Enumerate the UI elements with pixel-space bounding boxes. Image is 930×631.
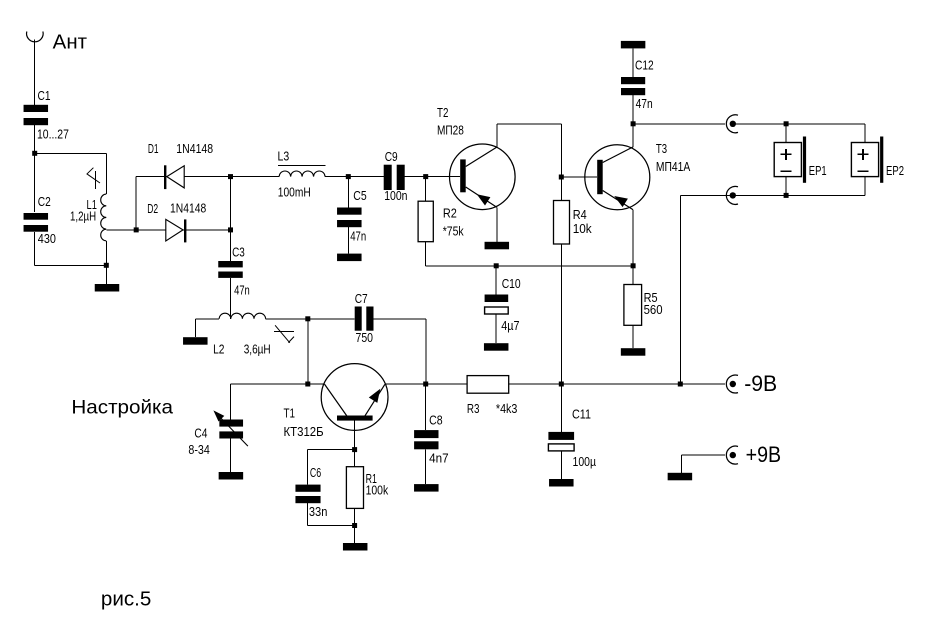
capacitor C3: [218, 245, 250, 297]
wire rail R3 to connector: [509, 383, 725, 385]
node T3 base junction: [559, 175, 564, 180]
wire C6 to bottom: [307, 503, 354, 525]
net +9V label: [746, 442, 782, 467]
svg-text:C6: C6: [310, 466, 321, 480]
trimmer mark L2: [274, 325, 294, 343]
wire C3 to L2 node: [230, 278, 232, 319]
wire C8 top lead: [425, 384, 427, 430]
svg-text:рис.5: рис.5: [101, 589, 151, 611]
ground under R5: [621, 348, 646, 356]
connector output top: [726, 115, 738, 133]
wire phones bottom return: [680, 194, 865, 196]
wire C7 to emitter node: [374, 319, 427, 384]
svg-text:100n: 100n: [384, 189, 407, 203]
svg-text:C4: C4: [194, 426, 207, 440]
wire R5 to ground: [632, 325, 634, 348]
node C10 junction: [494, 263, 499, 268]
ground under L2: [183, 337, 208, 345]
ground above C12: [621, 41, 646, 49]
svg-text:33n: 33n: [309, 505, 328, 519]
wire rail C4 to T1: [231, 383, 324, 385]
svg-text:1,2µН: 1,2µН: [70, 210, 96, 224]
svg-text:C8: C8: [429, 414, 443, 428]
wire L1 top lead: [105, 153, 107, 194]
diode D2: [136, 201, 231, 242]
svg-text:R3: R3: [467, 402, 480, 416]
svg-text:МП28: МП28: [437, 124, 464, 138]
svg-text:430: 430: [38, 232, 56, 246]
wire T2 base: [426, 176, 461, 178]
svg-text:3,6µН: 3,6µН: [244, 343, 271, 357]
svg-text:EP1: EP1: [809, 164, 827, 178]
node D2 left junction: [134, 227, 139, 232]
capacitor C12: [621, 59, 654, 112]
svg-text:T2: T2: [437, 106, 448, 120]
svg-text:C10: C10: [502, 277, 521, 291]
svg-text:Ант: Ант: [53, 32, 87, 54]
ground under C4: [219, 472, 244, 480]
wire R5 top lead: [632, 266, 634, 285]
svg-text:+9В: +9В: [746, 442, 782, 467]
capacitor C7: [355, 292, 374, 345]
svg-text:L3: L3: [278, 150, 290, 164]
node Ант label: [53, 32, 87, 54]
wire T3 emitter lead: [632, 210, 634, 266]
node EP1 top junction: [784, 121, 789, 126]
wire R4 top lead: [560, 177, 562, 201]
wire return riser: [679, 195, 681, 384]
wire C2 bottom lead: [34, 232, 36, 265]
earphone EP1: [774, 137, 826, 183]
wire D2 to C3: [230, 230, 232, 261]
wire tank top: [35, 152, 107, 154]
wire rail T1 to R3: [385, 383, 467, 385]
svg-text:T1: T1: [284, 407, 296, 421]
svg-text:D2: D2: [147, 202, 158, 216]
svg-text:1N4148: 1N4148: [170, 201, 206, 215]
wire C4 top lead: [230, 384, 232, 420]
ground under C5: [337, 254, 362, 262]
svg-text:100mH: 100mH: [278, 186, 311, 200]
node L1 bottom junction: [104, 263, 109, 268]
label Настройка: [71, 396, 173, 418]
wire D1-D2 right riser: [230, 177, 232, 230]
capacitor C6: [295, 466, 327, 519]
wire R2-C10-T3 rail: [426, 265, 633, 267]
wire collector node to output connector: [633, 123, 725, 125]
ground at +9V: [668, 473, 693, 481]
capacitor C5: [337, 189, 367, 244]
capacitor C10: [485, 277, 521, 333]
wire C4 to ground: [230, 439, 232, 473]
wire L1 bottom lead: [105, 241, 107, 265]
earphone EP2: [851, 137, 904, 183]
node T3 collector junction: [631, 121, 636, 126]
connector -9V: [726, 375, 738, 393]
transistor T2: [437, 106, 515, 209]
wire C12 to collector node: [632, 95, 634, 124]
svg-text:4µ7: 4µ7: [501, 319, 519, 333]
capacitor C8: [414, 414, 449, 466]
ground under C8: [414, 484, 439, 492]
node D1 right junction: [228, 174, 233, 179]
wire ground to C12: [632, 48, 634, 77]
wire to ground under L1: [105, 265, 107, 284]
label рис.5: [101, 589, 151, 611]
wire C2 top lead: [34, 153, 36, 212]
wire EP1 bottom lead: [785, 177, 787, 196]
svg-text:4n7: 4n7: [429, 452, 449, 466]
inductor L2: [213, 313, 271, 356]
diode D1: [136, 142, 231, 189]
svg-text:EP2: EP2: [886, 164, 904, 178]
resistor R5: [624, 285, 663, 326]
wire connector to phones top: [736, 123, 866, 125]
ground T2 emitter: [485, 242, 510, 250]
wire tank bottom: [35, 264, 107, 266]
ground under R1: [343, 543, 368, 551]
svg-text:Настройка: Настройка: [71, 396, 173, 418]
svg-text:C3: C3: [232, 245, 245, 259]
wire R1 top lead: [354, 450, 356, 467]
svg-text:D1: D1: [148, 142, 159, 156]
wire +9V to ground: [682, 455, 725, 473]
wire C9 to T2 base node: [405, 176, 426, 178]
svg-text:C11: C11: [572, 408, 591, 422]
ground under L1: [95, 284, 120, 292]
svg-text:-9В: -9В: [744, 371, 777, 396]
inductor L3: [278, 150, 326, 200]
wire T2 emitter lead: [496, 207, 498, 242]
wire C11 to ground: [560, 451, 562, 479]
capacitor C1: [24, 89, 69, 142]
wire EP2 bottom lead: [864, 177, 866, 196]
capacitor C4: [188, 410, 248, 457]
node T1 base junction: [352, 447, 357, 452]
resistor R4: [554, 201, 593, 245]
svg-text:T3: T3: [656, 142, 667, 156]
node T1 emitter junction: [423, 382, 428, 387]
net -9V label: [744, 371, 777, 396]
svg-text:МП41А: МП41А: [656, 160, 691, 174]
wire C5 to ground: [347, 227, 349, 253]
antenna symbol: [27, 32, 44, 42]
resistor R2: [418, 201, 464, 242]
svg-text:100k: 100k: [366, 484, 389, 498]
wire C7 node riser: [307, 319, 309, 384]
svg-text:C1: C1: [38, 89, 51, 103]
svg-text:КТ312Б: КТ312Б: [284, 425, 324, 439]
svg-text:*75k: *75k: [443, 225, 465, 239]
node R1 bottom junction: [352, 523, 357, 528]
node T1 collector junction: [305, 382, 310, 387]
svg-text:47n: 47n: [636, 97, 653, 111]
svg-text:R2: R2: [443, 207, 457, 221]
wire junction to C7: [308, 318, 355, 320]
wire R4 to -9V rail: [560, 244, 562, 384]
svg-text:C2: C2: [38, 195, 51, 209]
wire D1 node to L3: [231, 176, 280, 178]
svg-text:L2: L2: [213, 342, 224, 356]
resistor R3: [467, 376, 518, 416]
node EP1 bottom junction: [784, 193, 789, 198]
node T2 base junction: [423, 174, 428, 179]
trimmer mark L1: [87, 168, 100, 190]
wire T1 base lead: [354, 421, 356, 450]
node C5 junction: [346, 174, 351, 179]
svg-text:R4: R4: [573, 208, 587, 222]
wire T2 collector to T3 base drop: [497, 124, 561, 177]
wire C10 top lead: [495, 266, 497, 295]
wire L2 to C7 node: [266, 318, 308, 320]
capacitor C9: [384, 150, 408, 203]
svg-text:C9: C9: [385, 150, 398, 164]
wire EP2 top lead: [864, 124, 866, 143]
ground under C10: [484, 343, 509, 351]
svg-text:10...27: 10...27: [37, 128, 69, 142]
svg-text:47n: 47n: [234, 283, 250, 297]
svg-text:8-34: 8-34: [188, 443, 209, 457]
node return junction: [678, 382, 683, 387]
wire L2 left lead: [196, 319, 220, 337]
svg-text:100µ: 100µ: [573, 455, 597, 469]
transistor T1: [284, 364, 389, 439]
connector output bottom: [726, 186, 738, 204]
svg-text:C5: C5: [353, 189, 366, 203]
wire T3 base: [561, 176, 597, 178]
wire C10 to ground: [495, 314, 497, 343]
node D2 right junction: [228, 227, 233, 232]
wire antenna to C1: [34, 40, 36, 105]
node A junction: [32, 151, 37, 156]
connector +9V: [726, 446, 738, 464]
wire R1 bottom lead: [354, 508, 356, 525]
svg-text:560: 560: [644, 303, 663, 317]
wire L3 to C5 node: [325, 176, 384, 178]
node L2-C7 junction: [305, 316, 310, 321]
svg-text:10k: 10k: [573, 222, 593, 236]
capacitor C2: [24, 195, 56, 246]
ground under C11: [549, 479, 574, 487]
transistor T3: [585, 142, 691, 210]
inductor L1: [70, 194, 106, 241]
wire C5 top lead: [347, 177, 349, 208]
wire C8 to ground: [425, 449, 427, 484]
wire T3 collector riser: [632, 124, 634, 147]
wire base to C6: [307, 450, 354, 485]
node C11 junction: [559, 382, 564, 387]
resistor R1: [346, 467, 388, 509]
svg-text:47n: 47n: [350, 230, 366, 244]
svg-text:*4k3: *4k3: [496, 402, 518, 416]
wire EP1 top lead: [785, 124, 787, 143]
wire to ground under R1: [354, 526, 356, 544]
wire T2 collector riser: [496, 124, 498, 147]
svg-text:C12: C12: [635, 59, 654, 73]
capacitor C11: [548, 408, 596, 469]
wire D1 left riser: [135, 177, 137, 230]
wire R2 top lead: [425, 177, 427, 202]
svg-text:750: 750: [356, 331, 374, 345]
svg-text:1N4148: 1N4148: [176, 142, 213, 156]
wire C1 to node A: [34, 125, 36, 153]
node T3 emitter junction: [631, 263, 636, 268]
svg-text:C7: C7: [355, 292, 368, 306]
wire L1 tap to D2: [106, 229, 136, 231]
wire C11 top lead: [560, 384, 562, 432]
wire R2 bottom lead: [425, 242, 427, 266]
